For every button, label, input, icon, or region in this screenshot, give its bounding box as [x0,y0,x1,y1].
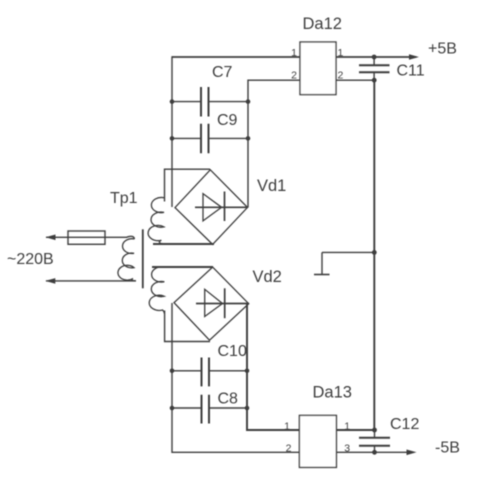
svg-text:C8: C8 [218,391,239,408]
svg-text:-5В: -5В [435,440,460,457]
svg-text:C12: C12 [390,416,419,433]
svg-text:1: 1 [338,47,344,59]
junction dot C11 bottom [372,78,377,83]
node input arrow top [46,235,56,241]
svg-text:1: 1 [284,420,290,432]
svg-text:+5В: +5В [428,41,457,58]
regulator IC Da13 body [299,415,336,467]
capacitor C10 [172,358,247,387]
transformer Tp1 secondary winding 2 [149,267,164,314]
junction dot right rail / C10 [245,369,250,374]
capacitor C9 [172,124,248,154]
transformer Tp1 core [142,229,144,288]
wire left input rail (Da12 input) down to Vd1 left vertex [171,56,173,207]
wire Da13 pin3 right to -5V arrow [336,451,413,453]
wire left rail bottom from Vd2 left vertex to Da13 pin2 [172,303,299,452]
wire primary bottom lead [46,280,136,282]
svg-text:1: 1 [291,47,297,59]
svg-text:2: 2 [291,70,297,82]
wire ground bus vertical [373,80,375,430]
capacitor C8 [172,395,247,424]
wire Vd1 bottom AC lead [153,243,214,245]
wire right rail down to Vd1 right vertex [247,80,249,208]
regulator IC Da12 body [300,42,336,95]
node +5V arrowhead [409,54,419,60]
wire Vd1 top AC lead [165,169,211,201]
svg-text:C9: C9 [217,112,238,129]
svg-text:C11: C11 [397,63,425,80]
svg-text:C7: C7 [212,64,233,81]
svg-text:C10: C10 [218,343,247,360]
transformer Tp1 secondary winding 1 [148,197,164,243]
junction dot ground tap [372,250,377,255]
transformer Tp1 primary winding [118,239,136,281]
diode inside Vd1 [195,192,248,222]
junction dot C12 top [372,428,377,433]
node input arrow bottom [45,278,55,284]
fuse on primary lead [68,231,105,244]
wire Vd2 top AC lead [152,266,213,268]
junction dot C12 bottom [372,450,377,455]
capacitor C12 [359,430,390,452]
junction dot right rail / C8 [245,406,250,411]
svg-text:2: 2 [286,442,292,454]
wire Da12 pin2 right to ground bus [336,79,374,81]
junction dot left rail / C9 [170,136,175,141]
junction dot right rail / C7 [246,99,251,104]
junction dot C11 top [372,55,377,60]
junction dot left rail / C8 [170,406,175,411]
wire Da13 pin1 right to ground bus end [336,429,374,431]
ground [314,252,330,274]
wire top rail from left rail corner to Da12 pin1 and onward to +5V arrow [172,56,416,58]
ground wire tap to bus [322,251,374,253]
svg-text:Da12: Da12 [303,15,342,33]
diode bridge Vd2 diamond [174,267,249,340]
capacitor C7 [172,87,248,117]
wire primary top lead with arrow through fuse [46,236,134,239]
wire Vd2 bottom AC lead [165,311,210,342]
svg-text:~220В: ~220В [7,251,54,268]
svg-text:Vd2: Vd2 [253,268,282,286]
wire right rail bottom from Vd2 right vertex to Da13 pin1 [247,304,299,430]
svg-text:Tp1: Tp1 [110,190,138,207]
diode bridge Vd1 diamond [175,170,248,245]
junction dot right rail / C9 [246,136,251,141]
svg-text:Vd1: Vd1 [257,177,286,195]
svg-text:2: 2 [338,70,344,82]
junction dot left rail / C10 [170,369,175,374]
diode inside Vd2 [196,288,249,318]
node -5V arrowhead [407,450,417,456]
svg-text:Da13: Da13 [313,384,352,402]
capacitor C11 [359,57,390,80]
junction dot left rail / C7 [170,99,175,104]
wire Da12 pin2 left to right rail corner [248,79,300,81]
